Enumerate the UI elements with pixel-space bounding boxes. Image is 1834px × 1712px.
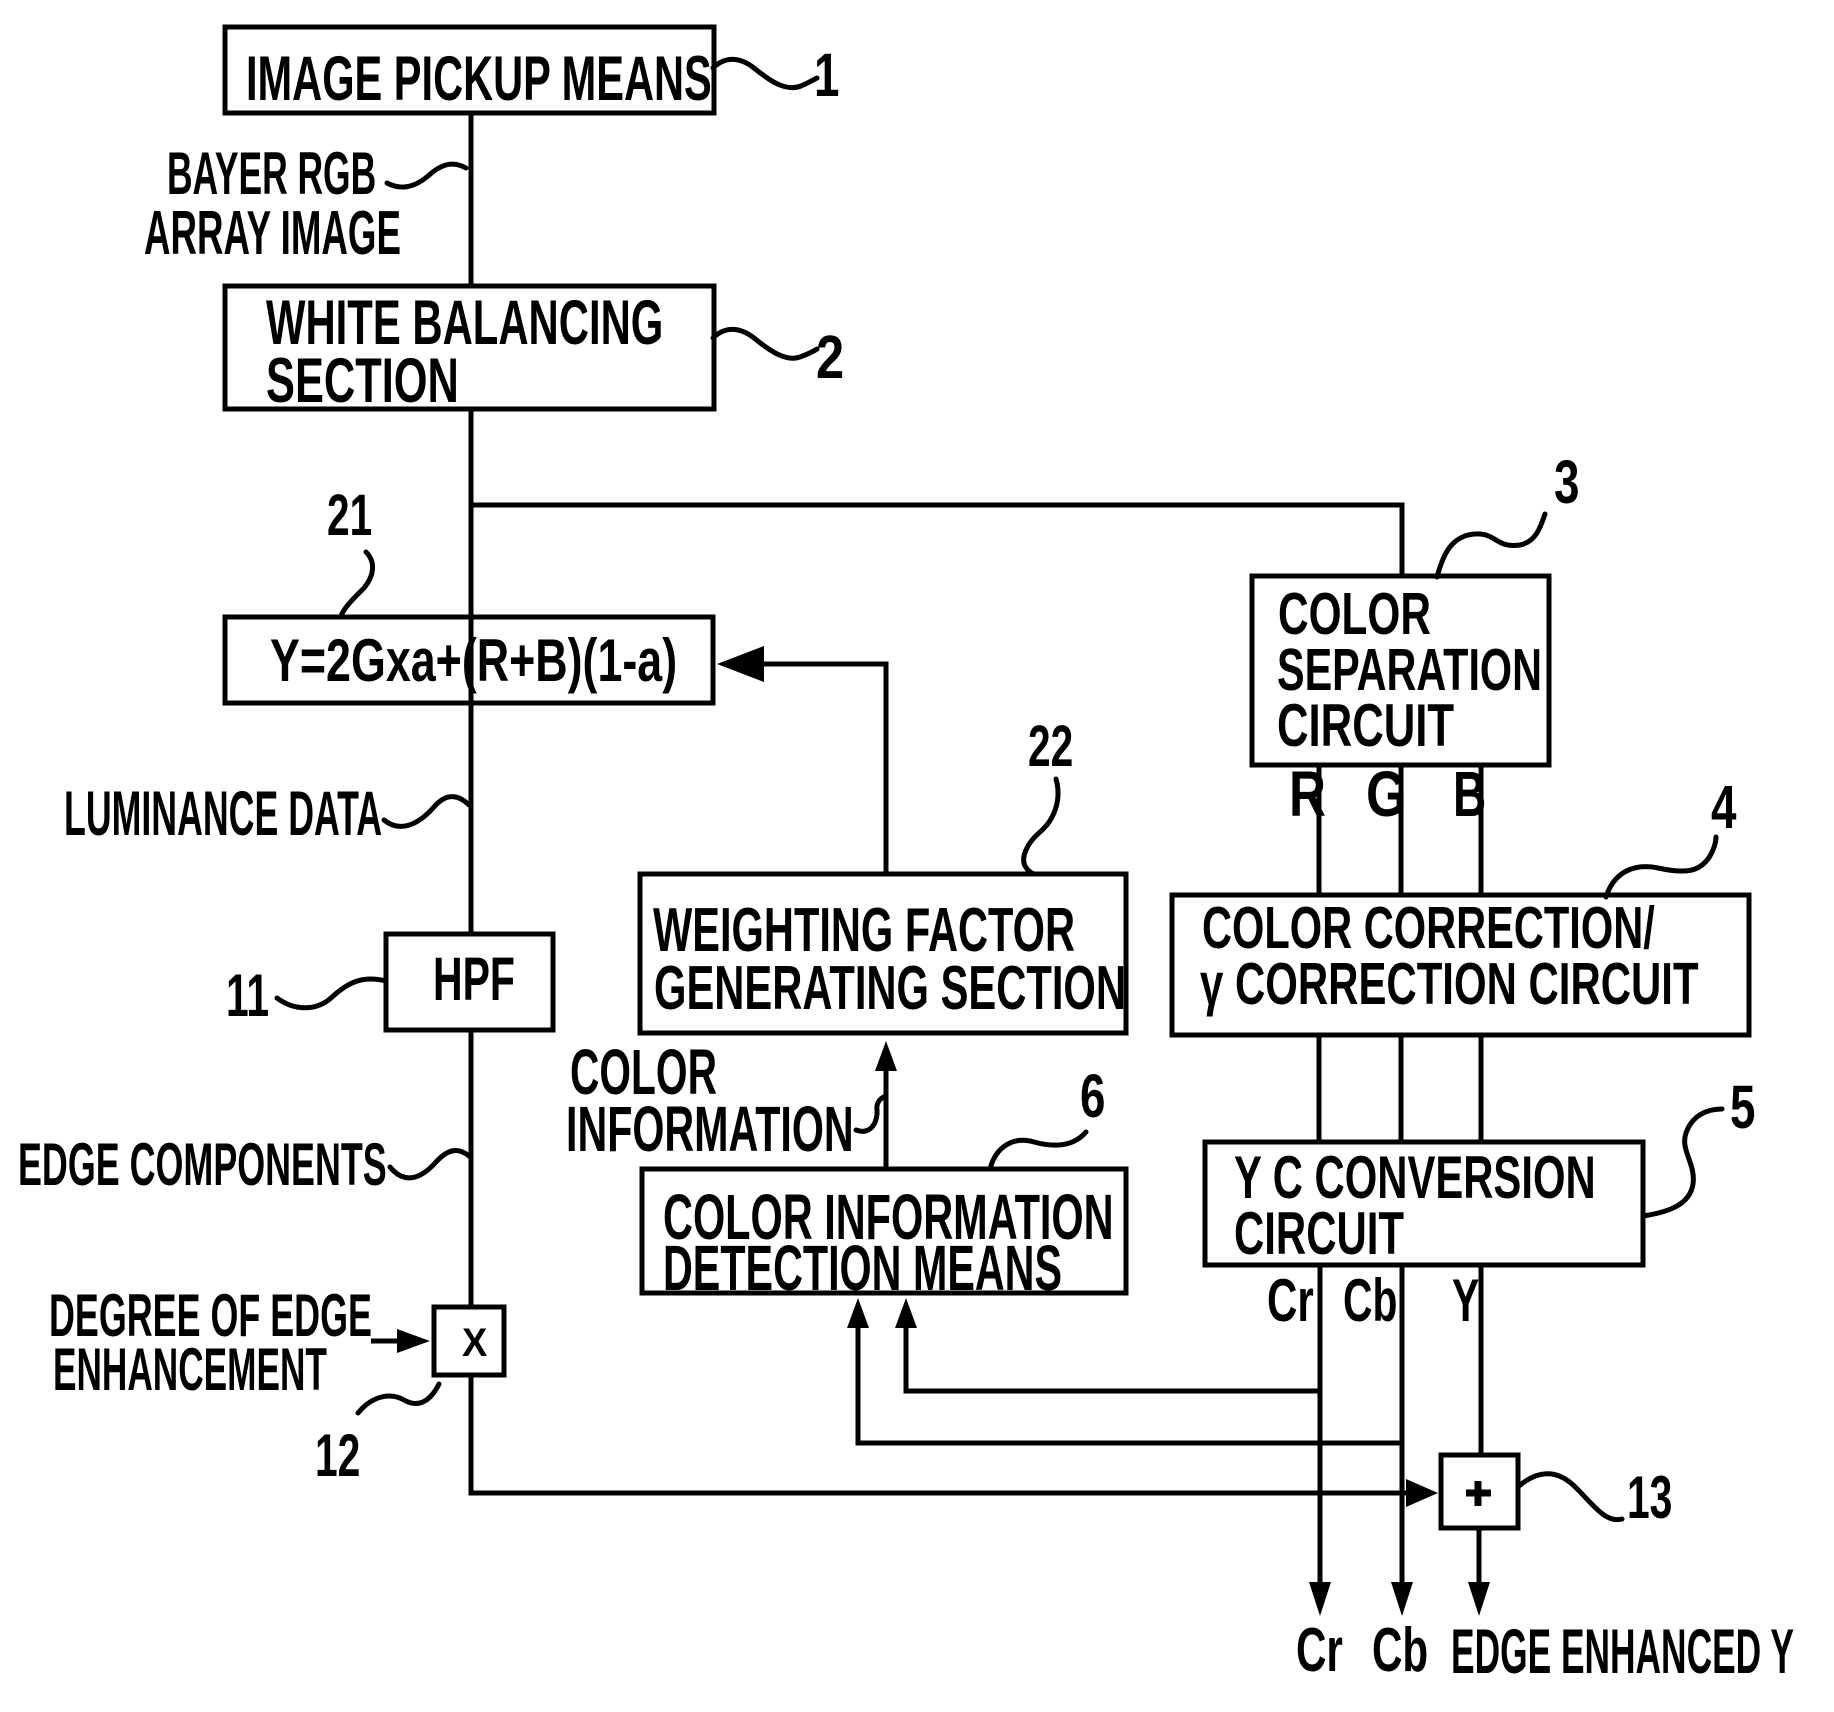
svg-text:EDGE COMPONENTS: EDGE COMPONENTS bbox=[18, 1132, 387, 1199]
svg-text:12: 12 bbox=[315, 1422, 360, 1489]
svg-text:1: 1 bbox=[814, 42, 839, 110]
svg-text:B: B bbox=[1453, 759, 1486, 830]
svg-text:SECTION: SECTION bbox=[266, 346, 459, 416]
svg-text:3: 3 bbox=[1554, 449, 1579, 517]
svg-text:13: 13 bbox=[1627, 1464, 1672, 1531]
svg-text:INFORMATION: INFORMATION bbox=[566, 1094, 854, 1165]
svg-text:22: 22 bbox=[1028, 714, 1073, 779]
svg-text:X: X bbox=[462, 1321, 487, 1365]
svg-text:11: 11 bbox=[226, 962, 269, 1029]
svg-text:IMAGE PICKUP MEANS: IMAGE PICKUP MEANS bbox=[246, 45, 712, 115]
svg-text:DETECTION MEANS: DETECTION MEANS bbox=[663, 1233, 1062, 1304]
svg-text:R: R bbox=[1289, 760, 1326, 831]
svg-text:ARRAY IMAGE: ARRAY IMAGE bbox=[144, 198, 401, 267]
svg-text:Cb: Cb bbox=[1372, 1616, 1428, 1685]
svg-text:6: 6 bbox=[1080, 1063, 1105, 1131]
svg-text:4: 4 bbox=[1711, 774, 1736, 842]
svg-text:EDGE ENHANCED Y: EDGE ENHANCED Y bbox=[1451, 1616, 1794, 1686]
svg-text:Y=2Gxa+(R+B)(1-a): Y=2Gxa+(R+B)(1-a) bbox=[270, 628, 677, 695]
svg-text:Y: Y bbox=[1452, 1267, 1479, 1334]
svg-text:LUMINANCE DATA: LUMINANCE DATA bbox=[64, 778, 382, 848]
svg-text:5: 5 bbox=[1730, 1074, 1755, 1142]
svg-text:G: G bbox=[1366, 759, 1407, 830]
svg-text:CIRCUIT: CIRCUIT bbox=[1234, 1200, 1404, 1267]
svg-text:HPF: HPF bbox=[433, 946, 515, 1014]
svg-text:GENERATING SECTION: GENERATING SECTION bbox=[654, 954, 1126, 1023]
svg-text:2: 2 bbox=[816, 323, 844, 392]
svg-text:γ CORRECTION CIRCUIT: γ CORRECTION CIRCUIT bbox=[1200, 951, 1699, 1017]
svg-text:Cr: Cr bbox=[1267, 1267, 1314, 1334]
svg-text:21: 21 bbox=[327, 483, 372, 548]
svg-text:Cb: Cb bbox=[1343, 1267, 1397, 1334]
svg-text:ENHANCEMENT: ENHANCEMENT bbox=[53, 1336, 327, 1403]
svg-text:Cr: Cr bbox=[1296, 1616, 1343, 1685]
svg-text:CIRCUIT: CIRCUIT bbox=[1277, 693, 1454, 759]
